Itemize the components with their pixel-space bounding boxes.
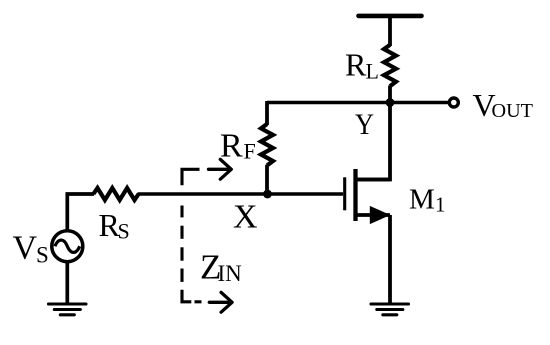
wire node Y to output terminal (390, 101, 450, 105)
svg-text:X: X (233, 199, 258, 236)
wire VS to ground (65, 262, 69, 304)
svg-text:Y: Y (355, 108, 374, 141)
resistor RS (93, 188, 138, 200)
svg-text:L: L (366, 59, 379, 84)
impedance boundary ZIN bottom dash (195, 300, 202, 303)
source VS sine wave (55, 240, 80, 252)
svg-text:M: M (409, 184, 435, 216)
arrow ZIN bottom (209, 292, 232, 312)
transistor M1 channel bar (353, 169, 357, 221)
impedance boundary ZIN bottom corner (dashed) (182, 290, 191, 302)
wire RF bottom to node X (265, 165, 269, 195)
wire RF top vertical (265, 101, 269, 125)
wire source of M1 to ground (388, 215, 392, 303)
resistor RL (384, 45, 396, 86)
label ZIN (200, 248, 242, 287)
resistor RF (261, 124, 273, 165)
transistor M1 gate bar (343, 177, 346, 210)
svg-text:OUT: OUT (492, 100, 534, 122)
wire node Y to RF top (267, 101, 390, 105)
impedance boundary ZIN vertical dashes (180, 206, 183, 282)
wire RL to node Y (388, 86, 392, 103)
label RL (345, 47, 379, 84)
svg-text:F: F (244, 139, 256, 164)
label VS (13, 230, 49, 268)
wire supply to RL (388, 16, 392, 46)
wire VS to RS (67, 194, 94, 230)
output terminal VOUT (open circle) (449, 98, 458, 107)
label RF (220, 128, 256, 165)
svg-text:V: V (13, 230, 38, 267)
label VOUT (473, 87, 534, 123)
node X junction dot (263, 190, 272, 199)
ground (M1 source) (371, 304, 409, 315)
supply rail (VDD bar) (359, 14, 422, 19)
transistor M1 drain stub (356, 178, 391, 182)
node Y junction dot (386, 98, 395, 107)
svg-text:1: 1 (435, 193, 446, 217)
svg-text:S: S (36, 243, 49, 268)
label RS (99, 207, 130, 244)
transistor M1 source wire (356, 213, 391, 217)
source VS (AC source) (52, 231, 83, 262)
impedance boundary ZIN top corner (dashed) (182, 169, 200, 185)
arrow ZIN top (209, 159, 232, 179)
svg-text:IN: IN (218, 261, 243, 286)
ground (VS) (49, 304, 87, 315)
svg-text:R: R (345, 47, 367, 83)
label M1 (409, 184, 446, 217)
wire node Y down to drain of M1 (354, 103, 391, 180)
wire RS to gate of M1 (138, 192, 344, 196)
svg-text:R: R (220, 128, 243, 165)
transistor M1 source arrow (370, 206, 391, 224)
svg-text:S: S (118, 219, 130, 244)
